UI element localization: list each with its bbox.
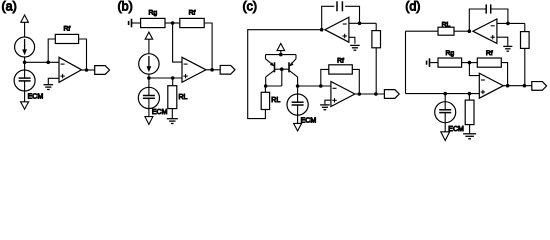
svg-text:RL: RL [179,94,188,101]
svg-text:Rf: Rf [337,57,344,64]
svg-text:Rg: Rg [148,9,157,16]
svg-text:(a): (a) [2,0,17,14]
svg-text:RL: RL [442,21,451,28]
svg-text:Rf: Rf [63,25,70,32]
svg-text:(d): (d) [405,0,420,14]
svg-text:ECM: ECM [28,93,44,100]
svg-text:(b): (b) [118,0,133,14]
svg-text:Rg: Rg [445,50,454,57]
svg-text:Rf: Rf [189,9,196,16]
svg-text:Rf: Rf [486,50,493,57]
svg-text:(c): (c) [243,0,258,14]
svg-text:RL: RL [271,97,280,104]
svg-text:ECM: ECM [301,118,317,125]
svg-text:ECM: ECM [448,126,464,133]
svg-text:ECM: ECM [152,109,168,116]
